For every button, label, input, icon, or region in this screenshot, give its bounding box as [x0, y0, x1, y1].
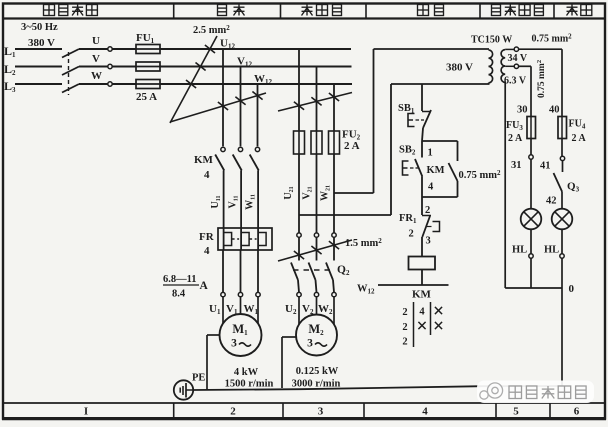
svg-text:34 V: 34 V — [508, 53, 528, 64]
svg-text:6.3 V: 6.3 V — [504, 76, 527, 87]
drop wires U12/V12/W12 to contactor KM — [222, 49, 224, 146]
indicator lamp HL (left) — [521, 209, 542, 230]
svg-text:2: 2 — [402, 322, 407, 333]
lamp common return rail — [505, 287, 562, 289]
wire L1 in — [15, 48, 62, 50]
svg-text:1: 1 — [428, 148, 433, 159]
contactor KM main contacts (3 poles) — [221, 147, 225, 151]
contactor coil KM — [409, 257, 436, 270]
wires FR to motor M1 terminals — [222, 250, 224, 292]
secondary taps — [505, 48, 514, 50]
wire L2 in — [15, 65, 62, 67]
header label: control (kong-zhi) — [418, 5, 444, 16]
transformer TC secondary windings (34V & 6.3V) — [501, 50, 505, 83]
cable size leader crossing U12,V12,W12 drops — [170, 93, 266, 122]
svg-text:2 A: 2 A — [344, 140, 360, 152]
svg-text:2: 2 — [425, 205, 430, 216]
main switch QS 3-pole blades — [62, 49, 79, 58]
fuse FU3 — [527, 117, 536, 139]
svg-text:2 A: 2 A — [572, 133, 587, 144]
terminal circle V — [108, 64, 112, 68]
fuse FU2 (3 cartridges) — [294, 131, 305, 154]
header label: power indicator (dian-yuan-zhi-shi) — [492, 5, 544, 16]
bus wires U12 V12 W12 — [160, 48, 351, 50]
wires switch to fuse FU1 — [79, 48, 108, 50]
wires FU2 to switch Q2 — [298, 154, 300, 233]
wire: U21 tap to control rail — [299, 214, 391, 216]
wire node 0 down to earth bus — [561, 288, 563, 386]
watermark text gong-kong-yun-xue-tang — [509, 386, 586, 399]
control 380V rail — [391, 83, 490, 85]
terminal below left lamp — [529, 254, 533, 258]
svg-text:A: A — [200, 280, 209, 292]
terminal circle W — [108, 82, 112, 86]
svg-text:2.5 mm2: 2.5 mm2 — [193, 24, 230, 36]
contactor KM auxiliary contact (self-holding) — [457, 141, 459, 161]
svg-text:2: 2 — [402, 337, 407, 348]
svg-text:3: 3 — [318, 406, 324, 418]
main switch linkage (dashed) — [68, 52, 70, 95]
svg-text:I: I — [84, 406, 88, 418]
lighting lamp HL (right) — [552, 209, 573, 230]
header label: lighting (zhao-ming) — [567, 5, 592, 16]
svg-text:TC150 W: TC150 W — [471, 35, 512, 46]
svg-text:KM: KM — [427, 165, 445, 176]
svg-text:2: 2 — [230, 406, 236, 418]
svg-text:4: 4 — [428, 182, 434, 193]
header label: power switch (dian-yuan-kai-guan) — [44, 5, 98, 16]
svg-text:KM: KM — [194, 154, 214, 166]
svg-text:0.75 mm2: 0.75 mm2 — [532, 33, 573, 45]
svg-text:W: W — [91, 70, 102, 82]
switch Q3 blade — [554, 173, 563, 192]
svg-text:40: 40 — [549, 105, 560, 116]
terminal U1 — [221, 292, 225, 296]
terminal U2 — [297, 292, 301, 296]
svg-text:3: 3 — [426, 236, 431, 247]
fuse FU1 (3 cartridges) — [136, 45, 160, 54]
footer cell dividers — [173, 403, 175, 418]
svg-text:4 kW: 4 kW — [234, 367, 259, 378]
terminal V1 — [238, 292, 242, 296]
terminal 41 — [560, 156, 564, 160]
transformer TC primary winding — [489, 50, 493, 83]
header row underline — [2, 17, 606, 19]
node: bottom of self-holding loop — [422, 196, 458, 198]
svg-text:1500 r/min: 1500 r/min — [225, 379, 274, 390]
svg-text:41: 41 — [540, 161, 551, 172]
thermal relay contact FR1 (NC) — [421, 197, 423, 215]
terminal W2 — [332, 292, 336, 296]
svg-text:6: 6 — [574, 406, 580, 418]
svg-text:25 A: 25 A — [136, 91, 157, 103]
terminal below right lamp — [560, 254, 564, 258]
svg-text:3: 3 — [307, 338, 313, 350]
KM contact usage table — [413, 302, 415, 347]
motor M2 — [296, 315, 337, 356]
svg-text:HL: HL — [512, 245, 527, 256]
svg-text:0.125 kW: 0.125 kW — [296, 366, 339, 377]
SB1 actuator E — [408, 114, 415, 127]
Q2 linkage (dashed) — [293, 269, 330, 271]
svg-text:HL: HL — [544, 245, 559, 256]
svg-text:U: U — [92, 35, 100, 47]
PE earth electrode symbol — [174, 380, 193, 399]
wire: W21 tap to transformer feed — [334, 192, 374, 194]
cable size leader crossing U21,V21,W21 — [278, 93, 352, 112]
bottom border emphasis — [2, 417, 606, 420]
terminal circle U — [108, 47, 112, 51]
switch Q2 (3 poles) — [297, 233, 301, 237]
svg-text:3: 3 — [231, 338, 237, 350]
lighting branch: FU4, switch Q3, lamp — [561, 139, 563, 157]
svg-text:V: V — [92, 53, 100, 65]
M2 frame earth wire — [282, 336, 297, 338]
wire mid tap to FU3 branch — [519, 65, 531, 67]
footer row top line — [2, 402, 606, 404]
svg-text:5: 5 — [513, 406, 519, 418]
terminal W1 — [256, 292, 260, 296]
svg-text:6.8—11: 6.8—11 — [163, 274, 197, 285]
svg-text:1.5 mm2: 1.5 mm2 — [345, 237, 382, 249]
earth bus wire — [193, 388, 300, 391]
svg-text:30: 30 — [517, 105, 528, 116]
svg-text:3~50 Hz: 3~50 Hz — [21, 22, 58, 33]
svg-text:31: 31 — [511, 160, 522, 171]
svg-text:42: 42 — [546, 196, 557, 207]
wires terminals to motor M2 — [298, 297, 300, 328]
node: SB2/KM-aux top junction — [422, 140, 458, 142]
pushbutton SB1 (stop, NC) — [421, 84, 423, 111]
svg-text:KM: KM — [412, 289, 432, 301]
SB2 actuator E — [403, 161, 409, 175]
coil return wire W12 — [378, 284, 449, 286]
header label: cooling pump (leng-que-beng) — [302, 5, 342, 16]
wire 6.3V bottom to lamp common — [504, 82, 506, 288]
watermark blob — [477, 381, 594, 404]
svg-text:4: 4 — [419, 307, 425, 318]
svg-text:4: 4 — [422, 406, 428, 418]
fuse FU4 — [558, 117, 567, 139]
svg-text:4: 4 — [204, 245, 210, 257]
M1 frame earth wire — [207, 334, 220, 336]
svg-text:0.75 mm2: 0.75 mm2 — [459, 169, 502, 181]
svg-text:2: 2 — [402, 307, 407, 318]
drop wires to fuse FU2 — [298, 49, 300, 131]
svg-text:2: 2 — [409, 229, 414, 240]
svg-text:FR: FR — [199, 231, 215, 243]
header cell dividers — [173, 4, 175, 19]
indicator branch: FU3 to lamp HL — [530, 139, 532, 155]
svg-text:4: 4 — [204, 169, 210, 181]
wires terminals to motor M1 — [222, 297, 224, 327]
terminal 31 — [529, 155, 533, 159]
terminal V2 — [314, 292, 318, 296]
watermark logo — [480, 383, 503, 399]
cable size leader (1.5mm2) crossing Q2 poles — [278, 240, 352, 261]
wire L3 in — [15, 83, 62, 85]
svg-text:2 A: 2 A — [508, 133, 523, 144]
pushbutton SB2 (start, NO) — [421, 141, 423, 158]
svg-text:8.4: 8.4 — [172, 289, 186, 300]
svg-text:0: 0 — [569, 283, 575, 295]
thermal relay FR heater box — [218, 228, 272, 250]
cable size leader line (2.5mm2) crossing L1-L3 — [170, 36, 217, 123]
wire 34V tap to FU4 branch — [519, 48, 562, 50]
svg-text:380 V: 380 V — [28, 37, 55, 49]
motor M1 — [220, 314, 262, 356]
svg-text:PE: PE — [192, 373, 205, 384]
svg-text:380 V: 380 V — [446, 62, 473, 74]
svg-text:0.75 mm2: 0.75 mm2 — [536, 60, 547, 98]
header label: main spindle (zhu-zhou) — [218, 5, 245, 16]
